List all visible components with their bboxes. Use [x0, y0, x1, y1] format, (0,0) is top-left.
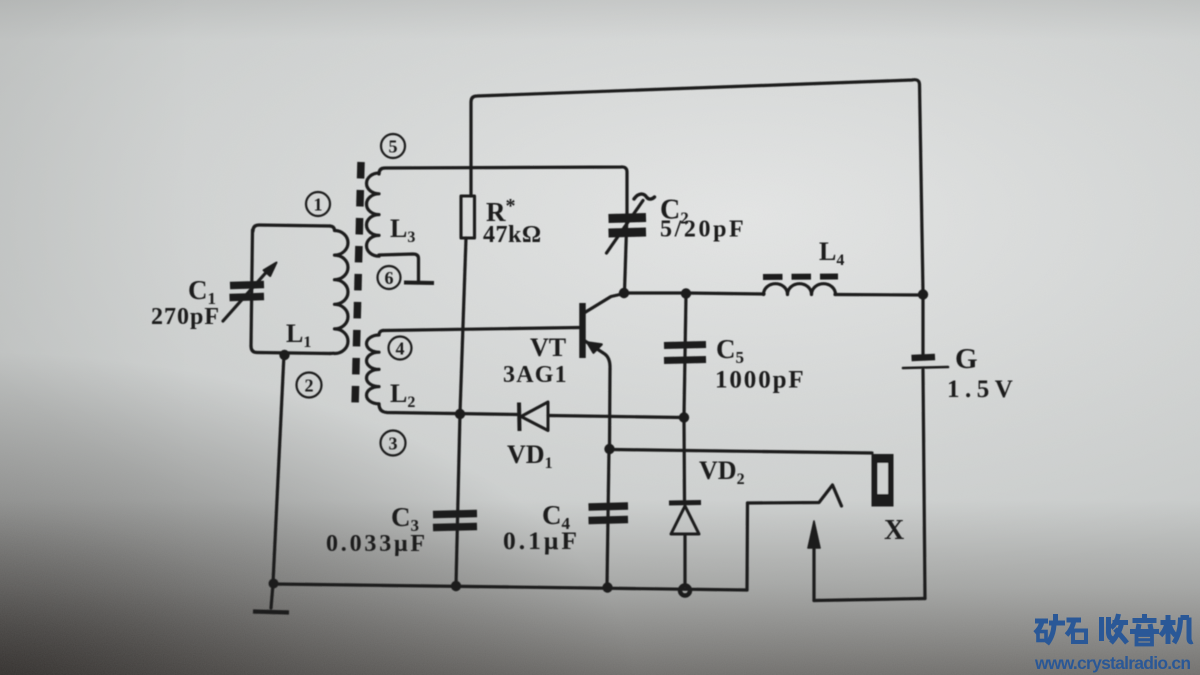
inductor L3 winding	[367, 173, 380, 256]
wire earphone node to jack X	[612, 450, 872, 454]
resistor R1 body	[461, 196, 475, 238]
svg-text:L2: L2	[390, 379, 415, 411]
svg-text:www.crystalradio.cn: www.crystalradio.cn	[1034, 653, 1190, 673]
capacitor C5 plates	[664, 345, 706, 346]
capacitor C2 trimmer tee mark	[607, 201, 644, 254]
watermark crystalradio logo	[1035, 614, 1193, 645]
wire collector node to C5 node	[624, 291, 686, 294]
wire switch arm with contact spring	[748, 485, 842, 506]
diode VD2 triangle	[671, 506, 699, 534]
wire C5 node to L4	[686, 293, 764, 294]
char ji	[1161, 615, 1193, 644]
svg-text:4: 4	[396, 339, 405, 359]
wire battery plus lead	[921, 296, 924, 355]
char shi	[1067, 620, 1087, 642]
wire C4 lead	[607, 449, 609, 586]
wire ground rail left section	[273, 584, 747, 590]
svg-text:L1: L1	[286, 319, 311, 351]
svg-text:2: 2	[305, 376, 314, 396]
wire L4 to battery node	[835, 293, 923, 297]
wire tank loop top	[253, 225, 330, 231]
wire pin6 stub	[379, 254, 419, 281]
svg-text:VD2: VD2	[699, 456, 745, 488]
char kuang	[1035, 614, 1065, 644]
pin 6 circled number	[378, 266, 401, 289]
svg-text:3AG1: 3AG1	[503, 362, 568, 388]
svg-text:L4: L4	[819, 237, 844, 269]
junction collector node	[619, 288, 629, 298]
svg-text:270pF: 270pF	[151, 304, 220, 330]
transistor Q1 emitter stroke with PNP arrow	[585, 341, 610, 369]
svg-text:6: 6	[385, 268, 394, 288]
wire battery minus to right rail corner	[923, 370, 925, 599]
svg-text:0.033μF: 0.033μF	[326, 531, 428, 557]
wire pin3 to VD1 anode	[379, 404, 518, 415]
svg-text:L3: L3	[390, 214, 415, 246]
transistor Q1 base bar	[579, 303, 586, 358]
svg-text:G: G	[955, 343, 978, 375]
transistor Q1 collector stroke	[584, 294, 622, 313]
junction R/C3/pin3 node	[455, 409, 465, 419]
char yin	[1130, 614, 1159, 645]
capacitor C2 plates (trimmer)	[609, 218, 647, 219]
svg-text:5/20pF: 5/20pF	[660, 217, 746, 243]
svg-text:5: 5	[389, 137, 398, 157]
char shou	[1102, 614, 1129, 643]
wire ground rail right section	[814, 599, 925, 601]
inductor L4 winding	[764, 284, 836, 295]
ground symbol	[271, 584, 273, 608]
transformer core	[355, 162, 361, 407]
wire antenna node drop to ground rail	[273, 354, 284, 583]
node pin6 open terminal bar	[404, 281, 434, 286]
junction emitter/jack node	[604, 444, 614, 454]
wire top supply rail from R branch to battery branch	[471, 80, 923, 292]
pin 3 circled number	[381, 431, 406, 456]
svg-text:VD1: VD1	[507, 440, 553, 472]
svg-text:1.5V: 1.5V	[947, 376, 1018, 403]
wire tank loop bottom	[251, 346, 330, 354]
pin 4 circled number	[389, 337, 412, 360]
svg-text:1: 1	[314, 195, 323, 215]
junction battery top node	[918, 289, 928, 299]
diode VD2 cathode bar	[669, 500, 701, 506]
junction ground rail left end	[269, 579, 279, 589]
jack X body	[872, 454, 894, 507]
capacitor C4 plates	[589, 506, 629, 507]
svg-text:C5: C5	[716, 334, 744, 367]
inductor L1 winding	[330, 226, 348, 354]
junction antenna node	[279, 350, 289, 360]
wire emitter down to earphone node	[608, 369, 612, 447]
pin 2 circled number	[297, 373, 322, 398]
inductor L4 core	[763, 274, 838, 281]
svg-text:3: 3	[389, 434, 398, 454]
wire C2 lead to collector node	[625, 213, 628, 292]
svg-text:X: X	[884, 515, 904, 546]
wire switch riser	[745, 503, 749, 590]
svg-text:47kΩ: 47kΩ	[483, 222, 542, 248]
junction C5 top node	[681, 288, 691, 298]
diode VD1 cathode bar	[517, 403, 522, 432]
capacitor C1 plates (variable)	[230, 285, 264, 286]
diode VD1 triangle	[521, 402, 548, 431]
wire pin5 to C2 top	[379, 167, 627, 213]
wire C3 lead	[456, 413, 460, 585]
junction C4 on ground rail	[602, 582, 612, 592]
wire pin4 to base	[383, 328, 580, 331]
junction detector node	[679, 412, 689, 422]
wire C1 lead	[251, 230, 253, 346]
pin 1 circled number	[306, 192, 330, 216]
wire R bottom to pin3 net	[460, 238, 466, 413]
svg-text:VT: VT	[530, 333, 566, 362]
battery G plates	[912, 357, 936, 358]
earphone plug insertion arrow	[812, 527, 815, 601]
pin 5 circled number	[381, 134, 405, 158]
svg-text:1000pF: 1000pF	[715, 367, 806, 394]
node VD2 ring terminal on ground rail	[680, 586, 690, 596]
wire VD2 upper lead	[682, 419, 686, 500]
capacitor C1 adjustment arrow	[223, 268, 270, 321]
junction C3 on ground rail	[451, 581, 461, 591]
wire VD1 cathode to detector node	[548, 416, 684, 418]
wire C5 lead	[684, 295, 686, 416]
inductor L2 winding	[367, 331, 384, 404]
wire VD2 lower lead to ring terminal	[683, 536, 686, 586]
svg-text:0.1μF: 0.1μF	[503, 526, 580, 555]
capacitor C3 plates	[433, 514, 477, 515]
